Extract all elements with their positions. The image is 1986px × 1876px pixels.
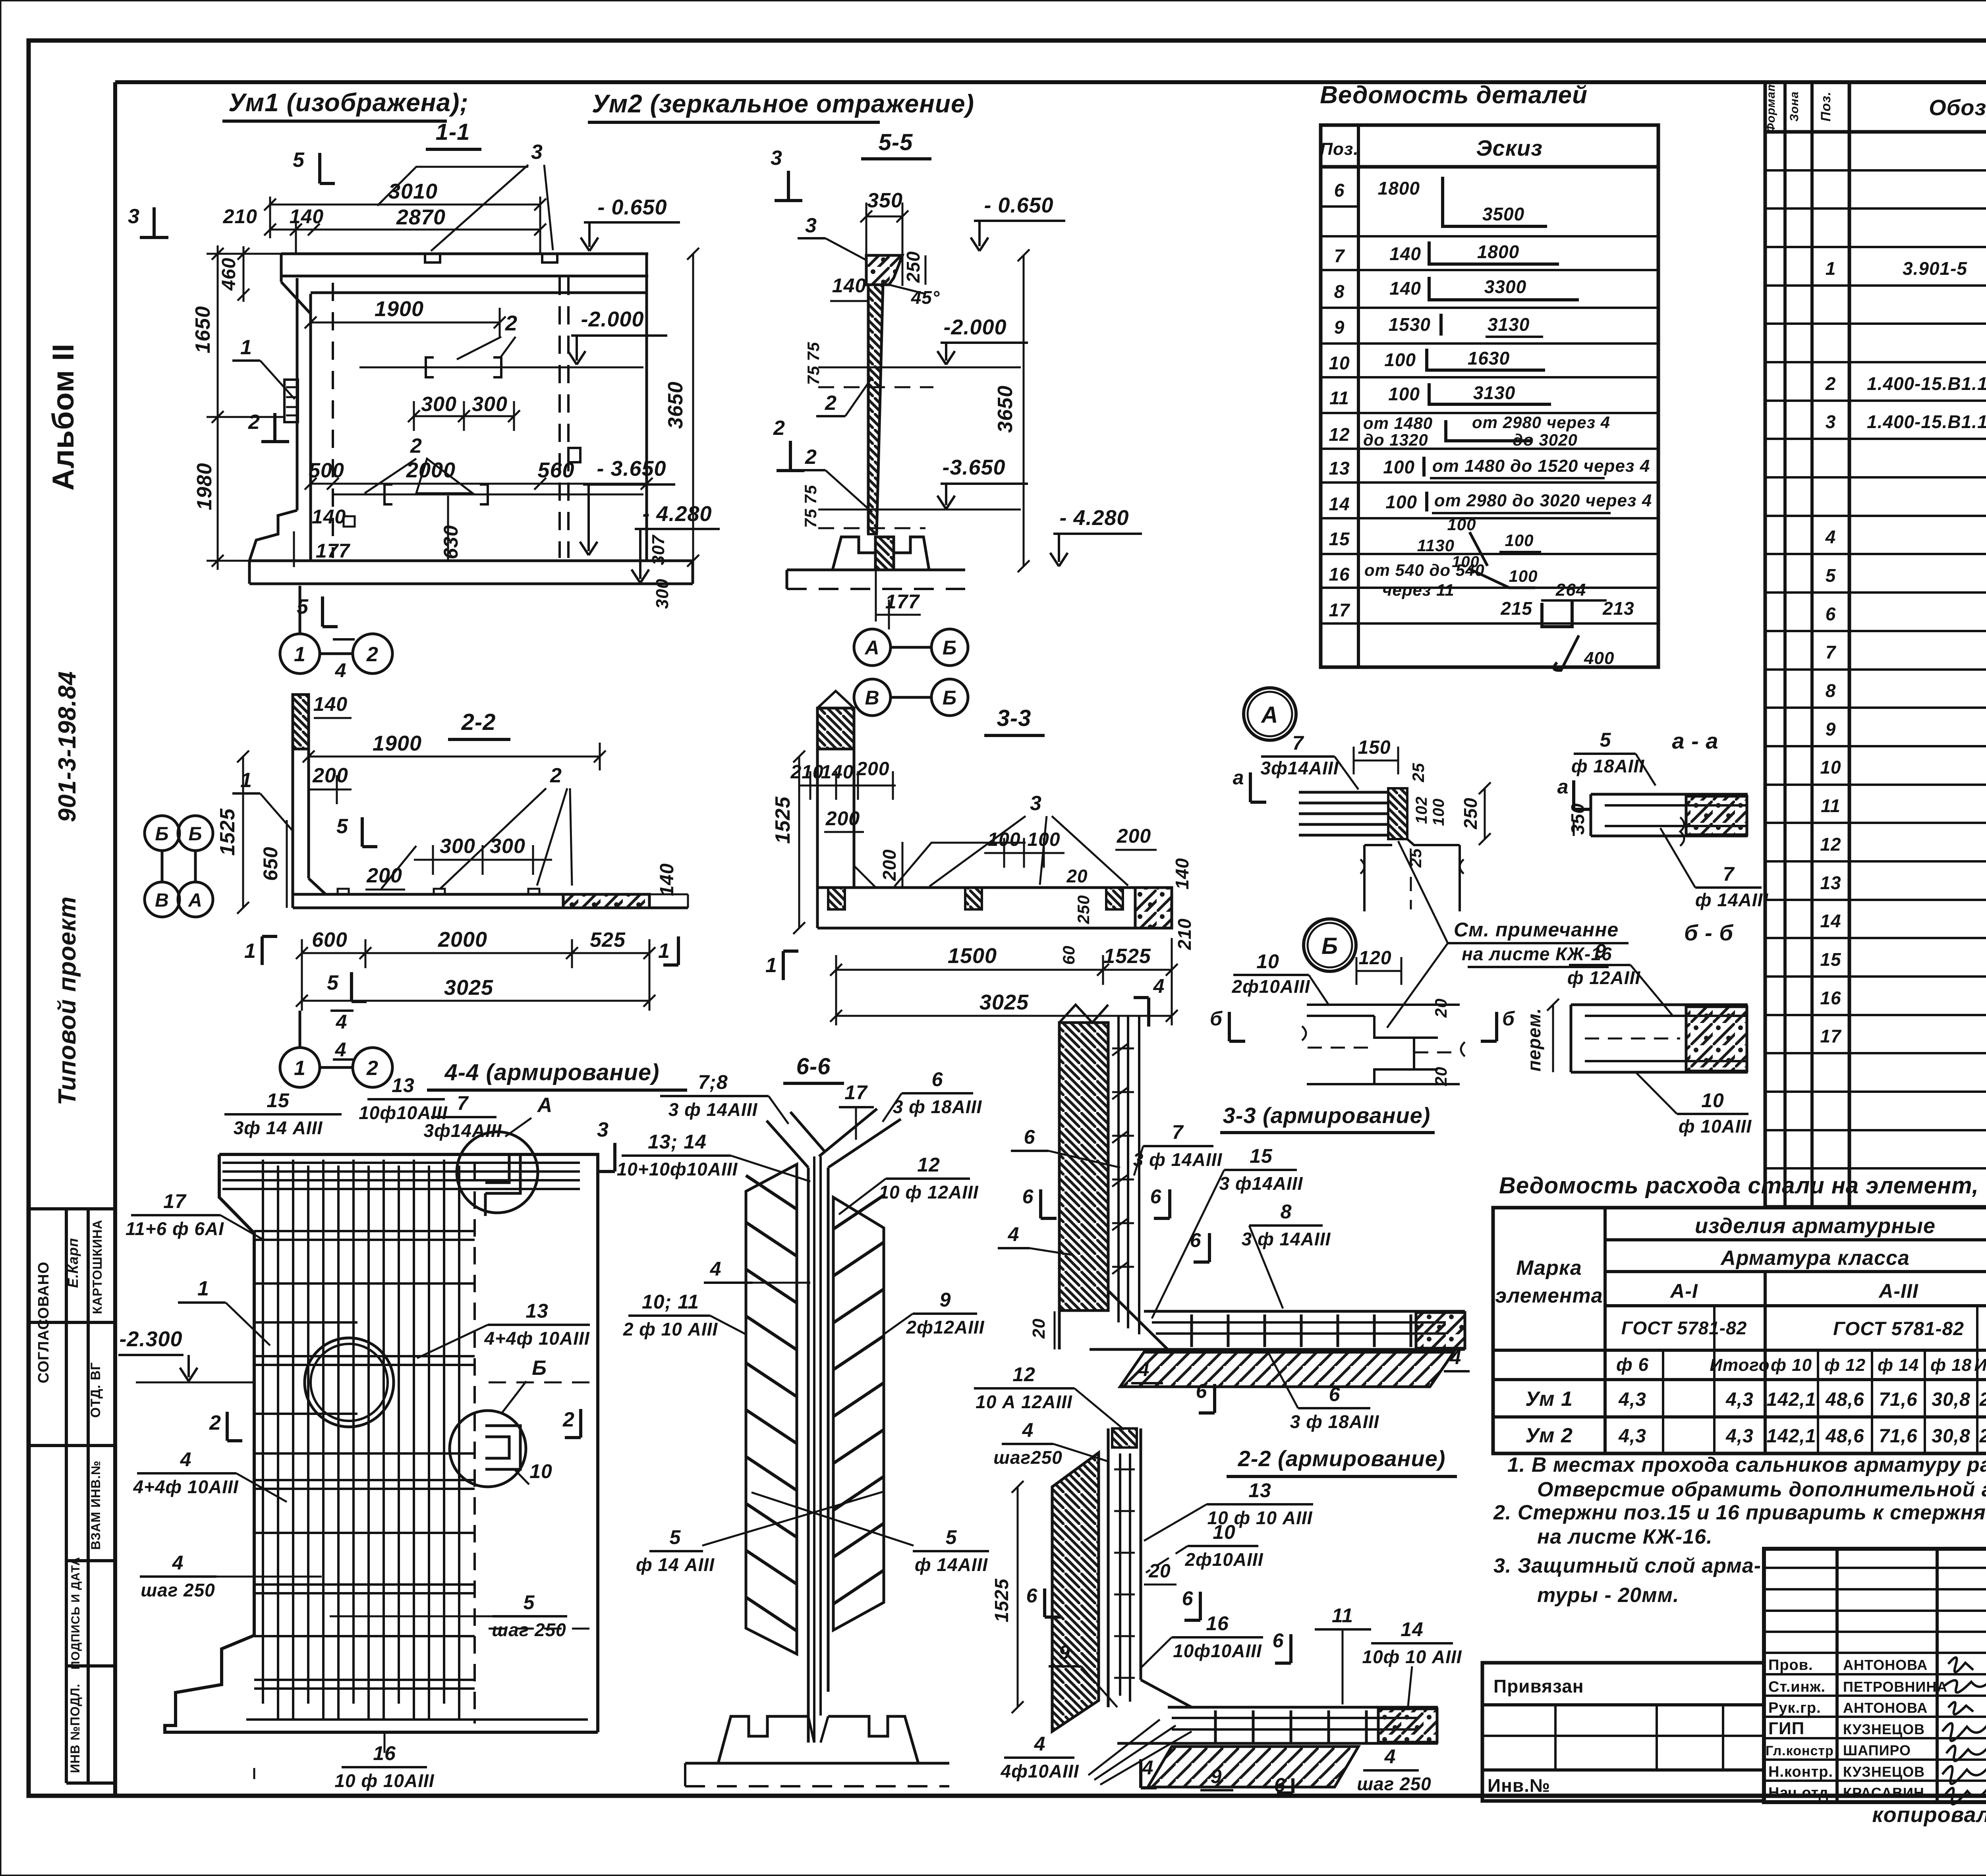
svg-text:120: 120 [1358, 948, 1391, 969]
svg-text:а - а: а - а [1672, 728, 1718, 753]
svg-text:перем.: перем. [1524, 1008, 1544, 1071]
svg-text:Пров.: Пров. [1768, 1657, 1813, 1673]
svg-text:4ф10АIII: 4ф10АIII [1000, 1761, 1079, 1781]
svg-text:10 ф 12АIII: 10 ф 12АIII [879, 1182, 978, 1202]
svg-text:ГОСТ 5781-82: ГОСТ 5781-82 [1621, 1318, 1747, 1338]
svg-text:5: 5 [946, 1526, 957, 1548]
svg-text:3010: 3010 [388, 179, 438, 203]
svg-text:КРАСАВИН: КРАСАВИН [1843, 1785, 1924, 1801]
svg-text:3: 3 [805, 214, 817, 237]
svg-text:13: 13 [1820, 872, 1841, 893]
svg-text:7: 7 [1292, 732, 1304, 754]
svg-text:2: 2 [505, 311, 518, 335]
svg-text:5: 5 [336, 815, 348, 838]
svg-text:1525: 1525 [216, 808, 239, 856]
svg-text:7: 7 [1172, 1121, 1184, 1143]
svg-text:3 ф 14АIII: 3 ф 14АIII [1133, 1149, 1223, 1170]
svg-text:Б: Б [943, 637, 957, 659]
svg-text:6: 6 [1196, 1380, 1207, 1402]
svg-text:3. Защитный слой арма-: 3. Защитный слой арма- [1493, 1554, 1761, 1577]
svg-text:б - б: б - б [1684, 920, 1733, 945]
svg-text:6: 6 [1150, 1185, 1162, 1208]
svg-text:210: 210 [790, 762, 823, 783]
svg-text:1630: 1630 [1468, 348, 1510, 369]
svg-text:А: А [537, 1094, 553, 1117]
svg-text:250: 250 [1460, 797, 1481, 830]
svg-text:16: 16 [1206, 1612, 1229, 1635]
svg-text:Марка: Марка [1516, 1256, 1582, 1280]
svg-text:60: 60 [1059, 946, 1078, 965]
svg-text:100: 100 [1430, 798, 1447, 826]
svg-text:Ум 1: Ум 1 [1525, 1388, 1573, 1411]
svg-text:6: 6 [1334, 180, 1345, 201]
svg-text:100: 100 [1388, 384, 1420, 404]
svg-text:6: 6 [1026, 1585, 1038, 1607]
svg-text:шаг250: шаг250 [993, 1447, 1063, 1468]
svg-text:10: 10 [1820, 757, 1841, 778]
svg-text:4: 4 [1022, 1419, 1034, 1441]
svg-text:Формат: Формат [1764, 80, 1777, 132]
svg-text:350: 350 [867, 189, 903, 212]
svg-text:4: 4 [1138, 1358, 1150, 1380]
svg-text:12: 12 [1820, 834, 1841, 855]
svg-text:15: 15 [1329, 529, 1350, 549]
svg-text:Гл.констр: Гл.констр [1766, 1743, 1834, 1758]
svg-text:2. Стержни поз.15 и 16 привари: 2. Стержни поз.15 и 16 приварить к стерж… [1493, 1501, 1986, 1524]
svg-text:140: 140 [1389, 278, 1421, 299]
svg-text:200: 200 [1117, 825, 1151, 847]
svg-text:16: 16 [1329, 564, 1350, 585]
svg-text:13: 13 [525, 1300, 549, 1322]
svg-text:200: 200 [879, 849, 900, 881]
svg-text:10: 10 [529, 1460, 553, 1482]
svg-text:ШАПИРО: ШАПИРО [1843, 1742, 1911, 1758]
svg-text:2: 2 [410, 434, 422, 457]
svg-text:4,3: 4,3 [1618, 1389, 1646, 1410]
svg-text:-3.650: -3.650 [942, 455, 1005, 479]
svg-text:293,1: 293,1 [1979, 1426, 1986, 1447]
svg-text:13; 14: 13; 14 [648, 1131, 707, 1153]
svg-text:ГИП: ГИП [1768, 1719, 1804, 1738]
svg-text:7: 7 [457, 1092, 469, 1114]
svg-text:2ф10АIII: 2ф10АIII [1184, 1549, 1263, 1570]
svg-text:1525: 1525 [991, 1578, 1012, 1622]
svg-text:Поз.: Поз. [1320, 139, 1358, 159]
svg-text:1. В местах прохода сальнико: 1. В местах прохода сальников арматуру р… [1507, 1453, 1986, 1476]
svg-text:48,6: 48,6 [1825, 1426, 1864, 1447]
svg-text:177: 177 [316, 540, 351, 562]
svg-text:6: 6 [1182, 1587, 1194, 1610]
svg-text:2-2 (армирование): 2-2 (армирование) [1238, 1446, 1446, 1471]
svg-text:1: 1 [294, 1057, 306, 1080]
svg-text:9: 9 [1211, 1765, 1222, 1787]
svg-text:9: 9 [940, 1289, 951, 1311]
svg-text:1500: 1500 [948, 944, 997, 968]
svg-text:9: 9 [1059, 1641, 1070, 1664]
svg-text:140: 140 [657, 863, 678, 896]
svg-text:4: 4 [180, 1448, 192, 1471]
svg-text:3.901-5: 3.901-5 [1903, 258, 1967, 279]
svg-text:4: 4 [335, 659, 347, 681]
svg-text:4+4ф 10АIII: 4+4ф 10АIII [133, 1476, 238, 1497]
svg-text:4: 4 [1008, 1223, 1020, 1245]
svg-text:10 А 12АIII: 10 А 12АIII [976, 1392, 1072, 1412]
svg-text:Ведомость деталей: Ведомость деталей [1320, 81, 1588, 109]
svg-text:ф 10АIII: ф 10АIII [1679, 1116, 1752, 1137]
svg-text:ф 12АIII: ф 12АIII [1567, 967, 1640, 988]
svg-text:140: 140 [1172, 858, 1192, 890]
svg-text:210: 210 [223, 205, 257, 228]
svg-text:ИНВ №ПОДЛ.: ИНВ №ПОДЛ. [68, 1683, 82, 1773]
svg-text:200: 200 [312, 764, 348, 787]
svg-text:2: 2 [773, 417, 785, 440]
svg-text:СОГЛАСОВАНО: СОГЛАСОВАНО [35, 1262, 52, 1384]
svg-text:1.400-15.В1.120-41: 1.400-15.В1.120-41 [1867, 373, 1986, 394]
svg-text:213: 213 [1602, 598, 1634, 619]
svg-text:ф 14: ф 14 [1878, 1355, 1919, 1375]
svg-text:177: 177 [885, 591, 920, 613]
svg-text:ф 18АIII: ф 18АIII [1571, 756, 1644, 776]
svg-text:туры - 20мм.: туры - 20мм. [1537, 1584, 1679, 1607]
svg-text:250: 250 [903, 251, 923, 283]
svg-text:3500: 3500 [1482, 204, 1524, 224]
svg-text:-2.300: -2.300 [119, 1327, 182, 1351]
svg-text:-2.000: -2.000 [581, 307, 644, 331]
svg-text:через 11: через 11 [1382, 581, 1455, 599]
svg-text:30,8: 30,8 [1932, 1426, 1970, 1447]
svg-text:6: 6 [1024, 1126, 1036, 1148]
svg-text:Обозначение: Обозначение [1929, 95, 1986, 120]
svg-text:3130: 3130 [1488, 314, 1530, 335]
svg-text:200: 200 [856, 759, 889, 780]
svg-text:1: 1 [658, 940, 670, 963]
svg-text:а: а [1557, 776, 1569, 798]
svg-text:75: 75 [804, 342, 823, 361]
svg-text:100: 100 [1384, 349, 1416, 370]
svg-text:КУЗНЕЦОВ: КУЗНЕЦОВ [1843, 1721, 1925, 1737]
svg-text:5: 5 [670, 1526, 681, 1548]
svg-text:5-5: 5-5 [879, 129, 913, 155]
svg-text:17: 17 [1820, 1026, 1842, 1046]
svg-text:140: 140 [821, 762, 854, 783]
svg-text:Рук.гр.: Рук.гр. [1768, 1700, 1821, 1716]
svg-text:4: 4 [1450, 1346, 1462, 1368]
svg-text:6: 6 [932, 1068, 943, 1090]
svg-text:шаг 250: шаг 250 [492, 1619, 566, 1640]
svg-text:10ф10АIII: 10ф10АIII [1173, 1641, 1262, 1661]
svg-text:140: 140 [312, 506, 346, 528]
svg-text:3: 3 [531, 141, 543, 164]
svg-text:Нач.отд.: Нач.отд. [1768, 1785, 1833, 1801]
svg-text:от 2980 через 4: от 2980 через 4 [1472, 413, 1610, 432]
svg-text:300: 300 [490, 835, 525, 858]
svg-text:10; 11: 10; 11 [642, 1291, 699, 1313]
svg-text:10ф 10 АIII: 10ф 10 АIII [1362, 1646, 1462, 1667]
svg-text:Ум 2: Ум 2 [1525, 1424, 1573, 1447]
svg-text:2ф10АIII: 2ф10АIII [1231, 976, 1310, 997]
svg-text:элемента: элемента [1495, 1284, 1603, 1307]
svg-text:3ф14АIII: 3ф14АIII [423, 1120, 502, 1141]
svg-text:300: 300 [472, 393, 508, 416]
svg-text:15: 15 [1820, 949, 1841, 970]
svg-text:17: 17 [163, 1190, 187, 1212]
svg-text:11: 11 [1821, 795, 1841, 816]
svg-text:См. примечанне: См. примечанне [1454, 919, 1619, 941]
svg-text:210: 210 [1174, 918, 1195, 950]
svg-text:300: 300 [653, 579, 672, 609]
svg-text:5: 5 [327, 971, 339, 994]
svg-text:630: 630 [440, 525, 462, 559]
svg-text:1: 1 [765, 954, 777, 977]
svg-text:300: 300 [440, 835, 475, 858]
svg-text:Е.Карп: Е.Карп [65, 1238, 81, 1288]
svg-text:ПОДПИСЬ И ДАТА: ПОДПИСЬ И ДАТА [69, 1557, 82, 1669]
svg-text:Ум1 (изображена);: Ум1 (изображена); [228, 88, 469, 117]
svg-text:20: 20 [1432, 1067, 1450, 1087]
svg-text:1800: 1800 [1378, 178, 1420, 199]
svg-text:20: 20 [1432, 998, 1450, 1018]
svg-text:КАРТОШКИНА: КАРТОШКИНА [90, 1220, 104, 1314]
svg-text:Эскиз: Эскиз [1476, 135, 1543, 160]
svg-text:4-4 (армирование): 4-4 (армирование) [444, 1060, 660, 1085]
svg-text:3 ф 14АIII: 3 ф 14АIII [668, 1099, 758, 1120]
svg-text:Арматура класса: Арматура класса [1720, 1247, 1910, 1270]
svg-text:Типовой проект: Типовой проект [54, 896, 81, 1106]
svg-text:-2.000: -2.000 [943, 315, 1007, 339]
svg-text:10 ф 10АIII: 10 ф 10АIII [334, 1770, 434, 1791]
svg-text:1800: 1800 [1477, 241, 1519, 262]
svg-text:650: 650 [259, 847, 282, 881]
svg-text:200: 200 [825, 807, 860, 830]
svg-text:Инв.№: Инв.№ [1488, 1775, 1550, 1796]
svg-text:9: 9 [1595, 940, 1607, 962]
svg-text:2: 2 [1825, 373, 1836, 394]
svg-text:6: 6 [1022, 1185, 1034, 1208]
svg-text:1: 1 [240, 336, 252, 359]
svg-text:3 ф 18АIII: 3 ф 18АIII [1290, 1411, 1379, 1432]
svg-text:4: 4 [1034, 1733, 1046, 1755]
svg-text:264: 264 [1555, 580, 1586, 600]
svg-text:А: А [1261, 702, 1279, 728]
svg-text:1.400-15.В1.130-23: 1.400-15.В1.130-23 [1867, 411, 1986, 432]
svg-text:2: 2 [248, 411, 260, 434]
svg-text:1130: 1130 [1417, 536, 1455, 555]
svg-text:А: А [188, 890, 203, 911]
svg-text:11+6 ф 6АI: 11+6 ф 6АI [126, 1218, 224, 1239]
svg-text:3: 3 [771, 147, 782, 170]
svg-text:2: 2 [562, 1408, 575, 1431]
svg-text:АНТОНОВА: АНТОНОВА [1843, 1657, 1928, 1673]
svg-text:300: 300 [421, 393, 457, 416]
svg-text:- 4.280: - 4.280 [642, 502, 712, 526]
svg-text:25: 25 [1409, 763, 1428, 783]
svg-text:13: 13 [1248, 1479, 1271, 1502]
svg-text:Б: Б [189, 824, 203, 845]
svg-text:- 0.650: - 0.650 [597, 195, 667, 219]
svg-text:4: 4 [1153, 975, 1165, 997]
svg-text:11: 11 [1332, 1604, 1353, 1627]
svg-text:ф 14АIII: ф 14АIII [915, 1554, 988, 1575]
svg-text:Ст.инж.: Ст.инж. [1768, 1679, 1826, 1695]
svg-text:5: 5 [524, 1591, 535, 1614]
svg-text:Б: Б [155, 824, 169, 845]
svg-text:20: 20 [1029, 1318, 1049, 1339]
svg-text:Б: Б [532, 1357, 547, 1380]
svg-text:Ум2 (зеркальное отражение): Ум2 (зеркальное отражение) [592, 89, 974, 118]
svg-text:6: 6 [1329, 1383, 1341, 1405]
svg-text:12: 12 [1012, 1363, 1036, 1386]
svg-text:Б: Б [1321, 933, 1338, 959]
svg-text:4: 4 [1142, 1756, 1154, 1779]
svg-text:14: 14 [1329, 494, 1350, 514]
svg-text:ф 14АIII: ф 14АIII [1695, 890, 1768, 910]
svg-text:140: 140 [290, 205, 324, 228]
svg-text:1-1: 1-1 [436, 119, 470, 145]
svg-text:Отверстие обрамить дополните: Отверстие обрамить дополнительной армату… [1537, 1478, 1986, 1501]
svg-text:4: 4 [335, 1038, 347, 1061]
svg-text:3130: 3130 [1473, 382, 1515, 403]
svg-text:6: 6 [1190, 1229, 1202, 1251]
svg-text:2000: 2000 [406, 458, 456, 482]
svg-text:7;8: 7;8 [698, 1071, 728, 1093]
svg-text:100: 100 [1385, 492, 1417, 512]
svg-text:11: 11 [1329, 388, 1349, 408]
svg-text:- 3.650: - 3.650 [597, 457, 666, 481]
svg-text:2: 2 [825, 392, 837, 415]
svg-text:1: 1 [294, 643, 306, 666]
svg-text:6-6: 6-6 [796, 1054, 831, 1079]
svg-text:Итого: Итого [1974, 1355, 1986, 1375]
svg-text:3: 3 [1826, 411, 1836, 432]
svg-text:3ф14АIII: 3ф14АIII [1260, 758, 1339, 778]
svg-text:3ф 14 АIII: 3ф 14 АIII [234, 1117, 323, 1138]
svg-text:20: 20 [1066, 866, 1088, 886]
svg-text:4,3: 4,3 [1725, 1389, 1754, 1410]
svg-text:А-I: А-I [1669, 1280, 1698, 1302]
svg-text:ГОСТ 5781-82: ГОСТ 5781-82 [1833, 1318, 1964, 1339]
svg-text:4: 4 [1384, 1745, 1396, 1768]
svg-text:АНТОНОВА: АНТОНОВА [1843, 1700, 1928, 1716]
svg-text:Ведомость расхода стали на: Ведомость расхода стали на элемент, кГ [1499, 1173, 1986, 1199]
svg-text:2: 2 [209, 1411, 221, 1434]
svg-text:215: 215 [1500, 598, 1532, 619]
svg-text:3650: 3650 [994, 385, 1017, 433]
svg-text:3 ф14АIII: 3 ф14АIII [1219, 1173, 1303, 1194]
svg-text:7: 7 [1826, 642, 1837, 662]
svg-text:2: 2 [805, 446, 817, 469]
svg-text:3: 3 [1030, 792, 1042, 815]
svg-text:ф 6: ф 6 [1616, 1354, 1649, 1375]
svg-text:17: 17 [844, 1081, 868, 1104]
svg-text:16: 16 [1820, 988, 1841, 1008]
svg-text:4: 4 [336, 1011, 348, 1033]
svg-text:Зона: Зона [1788, 91, 1801, 122]
svg-text:изделия арматурные: изделия арматурные [1695, 1214, 1936, 1238]
svg-text:3: 3 [597, 1118, 609, 1141]
svg-text:А: А [864, 637, 879, 659]
svg-text:100: 100 [1509, 567, 1538, 585]
svg-text:ф 18: ф 18 [1930, 1355, 1972, 1375]
svg-text:1: 1 [1826, 258, 1836, 279]
svg-text:Н.контр.: Н.контр. [1768, 1764, 1833, 1780]
svg-text:3-3: 3-3 [997, 705, 1032, 731]
svg-text:КУЗНЕЦОВ: КУЗНЕЦОВ [1843, 1764, 1925, 1780]
svg-text:293,1: 293,1 [1979, 1389, 1986, 1410]
svg-text:2ф12АIII: 2ф12АIII [906, 1317, 984, 1338]
svg-text:3650: 3650 [664, 381, 687, 429]
svg-text:а: а [1233, 766, 1244, 789]
svg-text:3 ф 18АIII: 3 ф 18АIII [893, 1096, 982, 1117]
svg-text:140: 140 [313, 693, 348, 715]
svg-text:15: 15 [267, 1089, 290, 1112]
svg-text:6: 6 [1826, 604, 1836, 624]
svg-text:шаг 250: шаг 250 [1357, 1774, 1432, 1794]
svg-text:250: 250 [1074, 895, 1093, 924]
svg-text:1: 1 [244, 940, 256, 963]
svg-text:ф 14 АIII: ф 14 АIII [636, 1554, 715, 1575]
svg-text:ВЗАМ ИНВ.№: ВЗАМ ИНВ.№ [89, 1460, 103, 1550]
svg-text:5: 5 [293, 149, 305, 172]
svg-text:до 3020: до 3020 [1513, 430, 1578, 449]
svg-text:4: 4 [710, 1258, 722, 1280]
svg-text:2-2: 2-2 [461, 709, 496, 735]
svg-text:600: 600 [312, 928, 348, 952]
svg-text:100: 100 [1383, 457, 1415, 477]
svg-text:142,1: 142,1 [1766, 1389, 1816, 1410]
svg-text:ф 12: ф 12 [1824, 1355, 1866, 1375]
svg-text:13: 13 [1329, 458, 1350, 479]
svg-text:1980: 1980 [193, 463, 216, 510]
svg-text:30,8: 30,8 [1932, 1389, 1970, 1410]
svg-text:1900: 1900 [373, 731, 422, 755]
svg-text:2: 2 [550, 764, 562, 787]
svg-text:ПЕТРОВНИНА: ПЕТРОВНИНА [1843, 1679, 1947, 1695]
svg-text:71,6: 71,6 [1879, 1426, 1917, 1447]
svg-text:- 4.280: - 4.280 [1059, 506, 1129, 530]
svg-text:от 540 до 540: от 540 до 540 [1364, 561, 1485, 579]
svg-text:2: 2 [366, 643, 379, 666]
svg-text:9: 9 [1826, 719, 1836, 739]
svg-text:3-3 (армирование): 3-3 (армирование) [1223, 1103, 1431, 1128]
svg-text:14: 14 [1820, 911, 1841, 931]
svg-text:8: 8 [1826, 680, 1836, 701]
svg-text:7: 7 [1334, 245, 1345, 266]
svg-text:4,3: 4,3 [1725, 1426, 1754, 1447]
svg-text:1525: 1525 [771, 796, 794, 844]
svg-text:копировал Корецкая: копировал Корецкая [1872, 1803, 1986, 1827]
svg-text:3: 3 [128, 205, 140, 228]
svg-text:100: 100 [1505, 531, 1534, 550]
svg-text:Привязан: Привязан [1493, 1676, 1584, 1697]
svg-text:10: 10 [1701, 1089, 1724, 1112]
svg-text:В: В [865, 687, 879, 709]
svg-text:7: 7 [1723, 863, 1735, 885]
svg-text:140: 140 [832, 274, 866, 297]
svg-text:45°: 45° [911, 287, 940, 308]
svg-text:8: 8 [1334, 281, 1345, 302]
svg-text:20: 20 [1148, 1561, 1171, 1582]
svg-text:Поз.: Поз. [1818, 91, 1833, 122]
svg-text:901-3-198.84: 901-3-198.84 [54, 671, 81, 822]
svg-text:от 1480 до 1520 через 4: от 1480 до 1520 через 4 [1432, 456, 1650, 476]
svg-text:140: 140 [1389, 243, 1421, 264]
svg-text:75: 75 [801, 509, 820, 528]
svg-text:6: 6 [1273, 1629, 1284, 1652]
svg-text:на листе КЖ-16: на листе КЖ-16 [1462, 944, 1612, 964]
svg-text:ОТД. ВГ: ОТД. ВГ [88, 1362, 103, 1418]
svg-text:от 2980 до 3020 через 4: от 2980 до 3020 через 4 [1434, 491, 1652, 510]
svg-text:12: 12 [917, 1154, 940, 1176]
